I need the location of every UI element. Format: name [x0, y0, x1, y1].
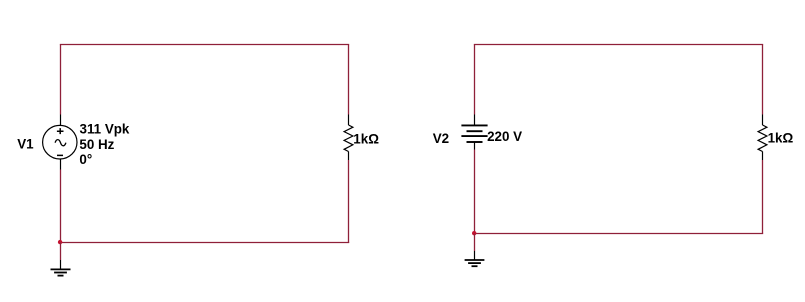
ground bar 1	[465, 259, 485, 261]
ground symbol (left circuit)	[51, 260, 71, 276]
svg-text:50 Hz: 50 Hz	[79, 137, 114, 152]
V1 minus sign	[57, 154, 63, 156]
ground bar 3	[58, 275, 64, 277]
wire: left vertical lower (V1 to bottom junction)	[60, 170, 62, 243]
pin: R1 bottom lead	[348, 152, 350, 161]
wire: left vertical lower (V2 to bottom junction)	[474, 150, 476, 234]
wire: right vertical upper (top corner to R2)	[762, 45, 764, 115]
resistor R2 1kOhm	[758, 115, 767, 161]
V2 plate long 2	[461, 135, 487, 137]
wire: bottom horizontal (junction to R2 bottom)	[474, 233, 763, 235]
ground bar 2	[468, 262, 481, 264]
svg-text:1kΩ: 1kΩ	[768, 131, 794, 146]
V1 plus sign	[57, 128, 64, 134]
junction dot (left circuit)	[58, 240, 62, 244]
wire: bottom horizontal (junction to R1 bottom)	[60, 242, 349, 244]
V1 circle body	[43, 125, 77, 159]
wire: ground stem (red, right circuit)	[474, 234, 476, 252]
wire: left vertical upper (top corner down to V2 pin)	[474, 45, 476, 115]
junction dot (right circuit)	[472, 231, 476, 235]
pin: V2 top lead	[474, 115, 476, 126]
resistor R1 1kOhm	[344, 115, 353, 161]
ground symbol (right circuit)	[465, 251, 485, 266]
svg-text:V1: V1	[17, 137, 34, 152]
ground bar 3	[472, 265, 478, 267]
pin: V1 top lead	[60, 115, 62, 127]
svg-text:V2: V2	[433, 131, 449, 146]
svg-text:311 Vpk: 311 Vpk	[80, 121, 130, 136]
ground bar 1	[51, 268, 71, 270]
wire: top horizontal (V2 to R2)	[474, 44, 763, 46]
svg-text:1kΩ: 1kΩ	[353, 131, 379, 146]
voltage source V1 (AC, 311 Vpk 50 Hz)	[43, 115, 77, 170]
pin: R2 bottom lead	[762, 152, 764, 161]
V2 plate short 2	[467, 141, 483, 143]
wire: right vertical lower (R2 to bottom corner)	[762, 160, 764, 234]
svg-text:220 V: 220 V	[487, 129, 522, 144]
pin: V2 bottom lead	[474, 142, 476, 150]
ground lead	[60, 260, 62, 269]
svg-text:0°: 0°	[79, 152, 92, 167]
ground bar 2	[54, 272, 67, 274]
voltage source V2 (DC battery, 220 V)	[461, 115, 487, 150]
pin: R1 top lead	[348, 115, 350, 126]
R2 zigzag	[758, 125, 767, 152]
ground lead	[474, 251, 476, 260]
wire: left vertical upper (top corner down to V1 pin)	[60, 45, 62, 115]
wire: top horizontal (V1 to R1)	[60, 44, 349, 46]
V2 plate short 1	[467, 130, 483, 132]
V2 plate long 1	[461, 124, 487, 126]
wire: ground stem (red)	[60, 243, 62, 261]
R1 zigzag	[344, 125, 353, 152]
pin: V1 bottom lead	[60, 160, 62, 170]
V1 sine symbol	[55, 140, 66, 146]
wire: right vertical lower (R1 to bottom corner)	[348, 160, 350, 243]
pin: R2 top lead	[762, 115, 764, 126]
wire: right vertical upper (top corner to R1)	[348, 45, 350, 115]
